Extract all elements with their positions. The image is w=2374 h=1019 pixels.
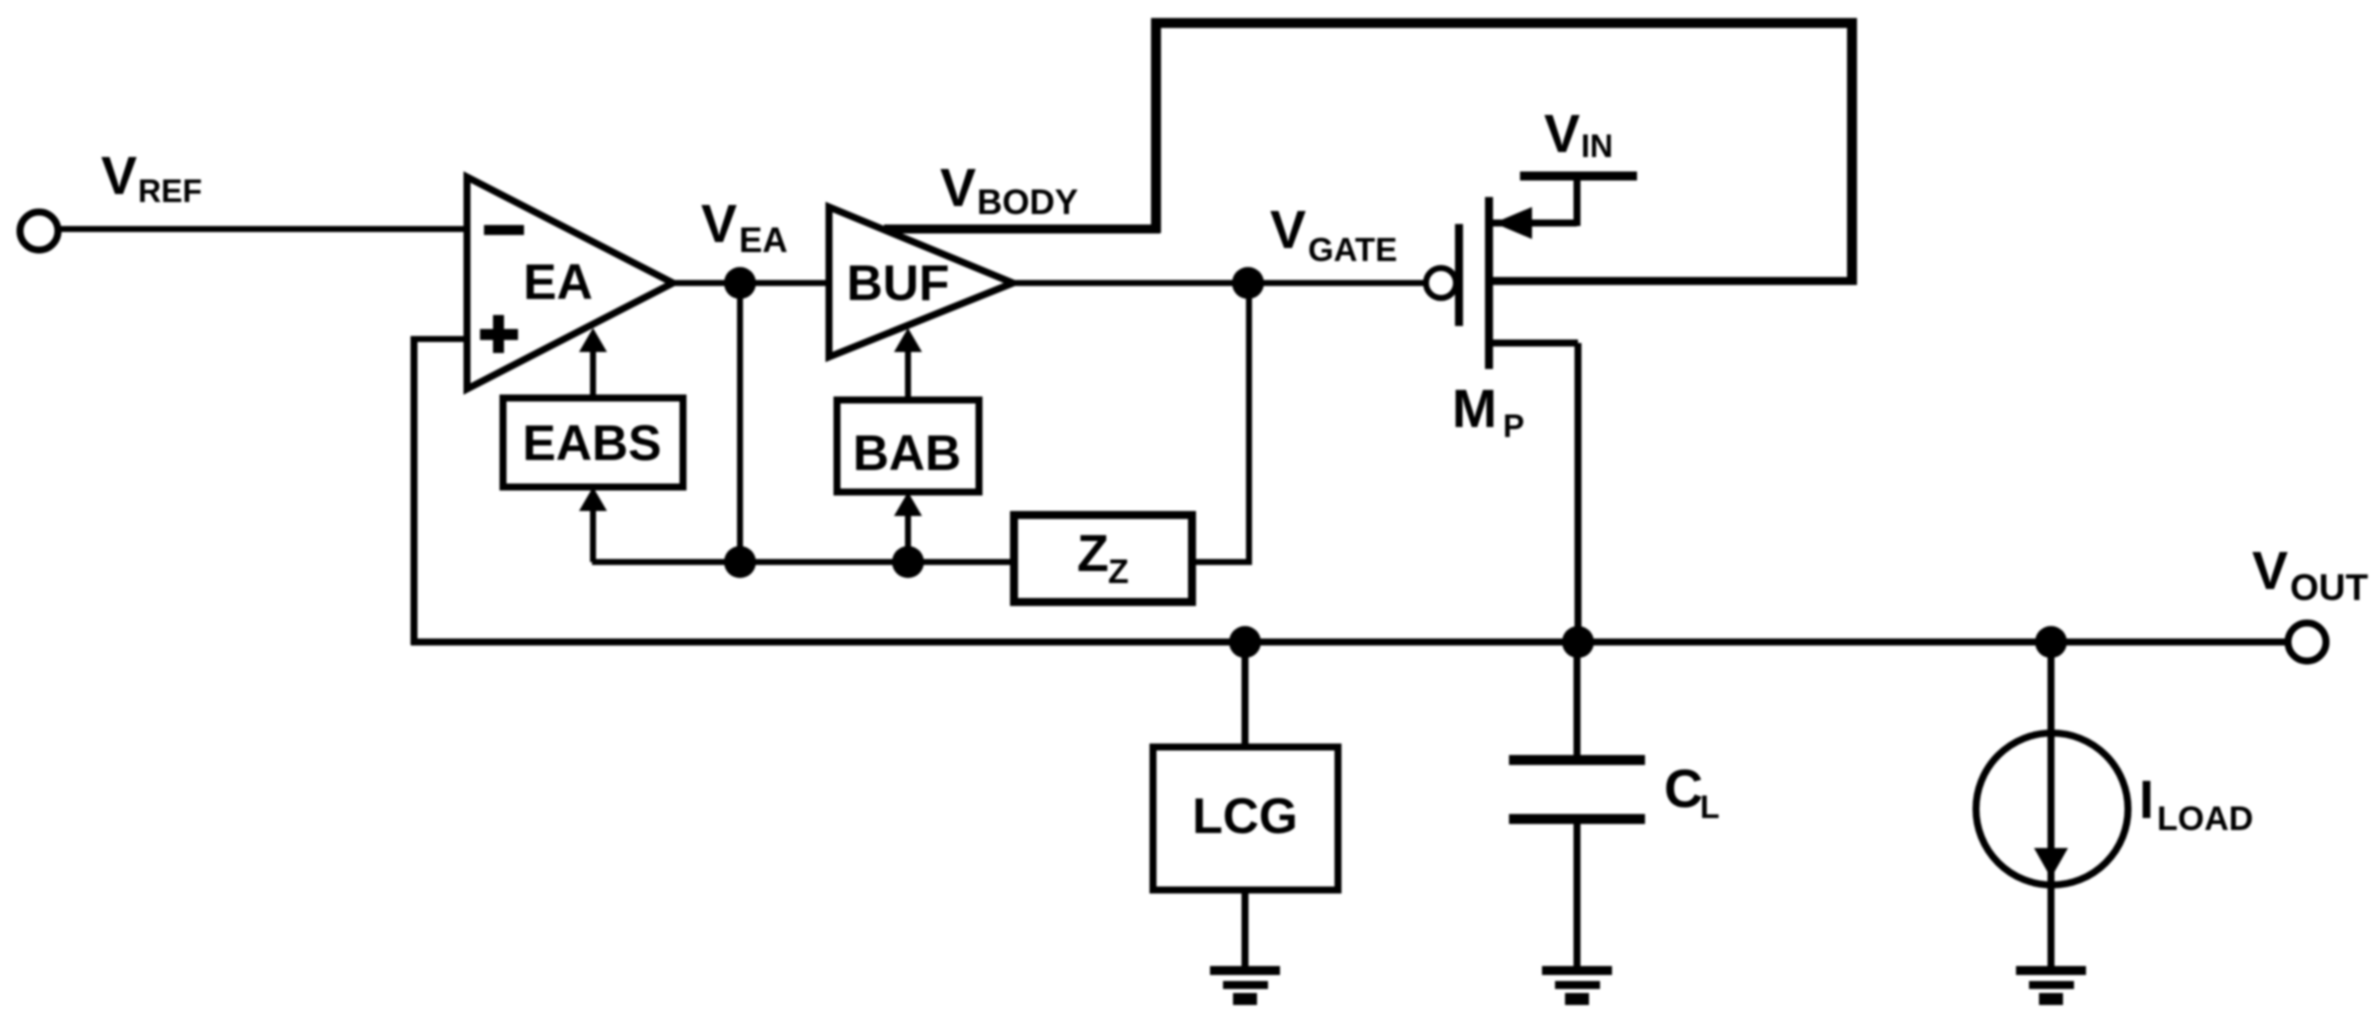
svg-text:V: V [101, 146, 137, 206]
svg-text:Z: Z [1077, 525, 1109, 583]
svg-text:LOAD: LOAD [2157, 800, 2253, 838]
svg-text:EABS: EABS [523, 415, 662, 471]
svg-text:EA: EA [523, 254, 592, 310]
svg-text:BAB: BAB [853, 425, 961, 481]
svg-text:BUF: BUF [847, 255, 950, 311]
svg-text:V: V [940, 158, 976, 218]
svg-text:GATE: GATE [1308, 231, 1397, 268]
svg-text:C: C [1664, 759, 1703, 819]
svg-text:V: V [1544, 104, 1580, 164]
svg-text:L: L [1700, 789, 1720, 825]
svg-text:LCG: LCG [1192, 788, 1298, 844]
svg-text:P: P [1503, 408, 1524, 444]
svg-text:EA: EA [739, 221, 788, 260]
svg-text:IN: IN [1581, 128, 1613, 164]
svg-text:V: V [1270, 200, 1306, 260]
svg-text:BODY: BODY [977, 183, 1078, 222]
svg-text:V: V [2252, 541, 2288, 601]
svg-text:OUT: OUT [2290, 567, 2369, 608]
svg-text:I: I [2139, 770, 2154, 830]
svg-text:M: M [1452, 379, 1497, 439]
svg-text:Z: Z [1108, 553, 1129, 591]
svg-text:V: V [701, 194, 737, 254]
svg-text:REF: REF [138, 173, 202, 209]
